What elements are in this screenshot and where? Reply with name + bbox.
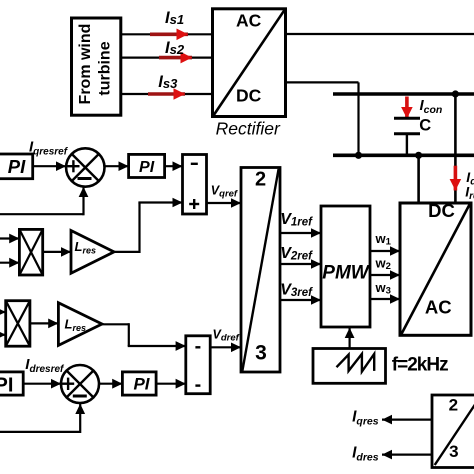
svg-text:Vdref: Vdref — [213, 328, 240, 344]
feedback wire into summer S2 minus input — [0, 404, 80, 433]
wire PI1 to summer S1 — [33, 165, 66, 167]
svg-text:Is3: Is3 — [158, 73, 178, 91]
wire T1 to PMW (V1ref) — [280, 232, 321, 234]
wire X2 to gain Lres2 — [30, 322, 59, 324]
svg-text:DC: DC — [236, 86, 262, 106]
wire summer S1 to PI2 — [105, 165, 129, 167]
multiplier block X1 — [19, 229, 42, 275]
PI controller box PI1 — [0, 154, 33, 179]
svg-text:3: 3 — [449, 442, 458, 461]
junction dot top bus — [452, 90, 459, 97]
wire Lres1 to B1 plus input — [114, 203, 183, 254]
wire B1 to dq-abc block (Vqref) — [207, 202, 242, 204]
red current arrow Is1 — [150, 32, 188, 36]
svg-text:C: C — [419, 116, 431, 134]
svg-text:Rectifier: Rectifier — [216, 119, 281, 139]
abc to dq measurement block T2 — [432, 395, 474, 468]
junction dot bottom bus at inverter branch — [415, 152, 422, 159]
wire PMW to inverter (w2) — [370, 274, 401, 276]
wire B2 to dq-abc block (Vdref) — [210, 346, 241, 348]
wire Lres2 to B2 top minus input — [102, 323, 186, 346]
PI controller box PI3 — [0, 372, 23, 396]
svg-text:AC: AC — [236, 10, 262, 30]
svg-text:PI: PI — [133, 374, 150, 393]
PI controller box PI2 — [129, 154, 165, 177]
wire PI4 to B2 bottom minus input — [156, 383, 186, 385]
wire PI2 to subtractor B1 minus input — [165, 165, 183, 167]
summing rectangle B2 — [186, 336, 210, 394]
red current arrow Icon — [405, 97, 409, 119]
svg-text:2: 2 — [255, 168, 266, 190]
svg-text:PMW: PMW — [322, 262, 371, 283]
wire input 1 to X1 — [0, 237, 19, 239]
sawtooth carrier generator — [313, 349, 386, 384]
PI controller box PI4 — [122, 372, 156, 395]
svg-text:PI: PI — [139, 159, 155, 176]
svg-text:PI: PI — [8, 156, 26, 177]
svg-text:Is2: Is2 — [165, 39, 185, 57]
wire Is2 — [121, 56, 213, 58]
wire DC bus top — [333, 92, 474, 96]
svg-text:PI: PI — [0, 374, 13, 396]
wire T2 output Iqres — [382, 419, 432, 421]
wire Is3 — [121, 93, 213, 95]
wire input 1 to X2 — [0, 311, 6, 313]
wire T1 to PMW (V3ref) — [280, 299, 321, 301]
feedback wire into summer S1 minus input — [0, 187, 84, 215]
summing junction S1 — [66, 148, 104, 186]
svg-text:Icon: Icon — [420, 97, 443, 116]
wire rectifier DC output vertical drop — [357, 82, 359, 155]
svg-text:Is1: Is1 — [165, 9, 184, 27]
block From wind turbine — [72, 18, 121, 115]
svg-text:V2ref: V2ref — [280, 245, 313, 263]
dq to abc transform block T1 — [241, 168, 280, 373]
wire X1 to gain Lres1 — [43, 251, 71, 253]
capacitor C bottom plate — [394, 132, 420, 135]
wire PI3 to summer S2 — [23, 383, 61, 385]
svg-text:Idresref: Idresref — [25, 356, 65, 375]
gain block Lres1 — [71, 231, 114, 274]
summing rectangle B1 — [183, 155, 207, 215]
PMW modulator block — [321, 206, 371, 327]
wire rectifier AC top output — [286, 33, 474, 35]
wire PMW to inverter (w1) — [370, 250, 401, 252]
rectifier block U1 — [213, 9, 286, 117]
svg-text:V1ref: V1ref — [280, 211, 313, 229]
wire input 2 to X1 — [0, 262, 19, 264]
svg-text:Iqresref: Iqresref — [29, 138, 69, 157]
wire summer S2 to PI4 — [100, 383, 123, 385]
svg-text:DC: DC — [428, 200, 455, 221]
red current arrow Is3 — [148, 92, 185, 96]
wire T1 to PMW (V2ref) — [280, 263, 321, 265]
summing junction S2 — [61, 365, 99, 403]
wire input 2 to X2 — [0, 334, 6, 336]
svg-text:2: 2 — [449, 396, 458, 415]
wire rectifier DC output horizontal — [286, 81, 359, 83]
gain block Lres2 — [58, 303, 102, 346]
wire top bus to inverter DC input — [454, 94, 457, 203]
svg-text:Idres: Idres — [352, 445, 379, 464]
svg-text:Vqref: Vqref — [211, 183, 238, 199]
wire capacitor to bottom bus — [406, 134, 408, 156]
wire PMW to inverter (w3) — [370, 298, 401, 300]
svg-text:w3: w3 — [375, 280, 391, 297]
svg-text:Iqres: Iqres — [352, 409, 379, 428]
multiplier block X2 — [6, 301, 30, 347]
wire DC bus bottom — [333, 154, 474, 158]
svg-text:w2: w2 — [375, 255, 391, 272]
junction dot bottom bus at DC drop — [355, 152, 362, 159]
svg-text:V3ref: V3ref — [280, 282, 313, 300]
wire sawtooth to PMW — [349, 328, 351, 349]
svg-text:3: 3 — [255, 342, 267, 365]
capacitor C top plate — [394, 117, 420, 120]
wire T2 output Idres — [382, 454, 432, 456]
red current arrow Is2 — [159, 56, 192, 60]
inverter block U2 — [400, 200, 471, 335]
wire bottom bus to inverter DC input — [417, 155, 420, 203]
red current arrow on inverter input — [454, 166, 458, 191]
svg-text:AC: AC — [425, 297, 452, 318]
svg-text:f=2kHz: f=2kHz — [392, 355, 448, 376]
svg-text:w1: w1 — [375, 231, 392, 248]
wire Is1 — [121, 33, 213, 35]
